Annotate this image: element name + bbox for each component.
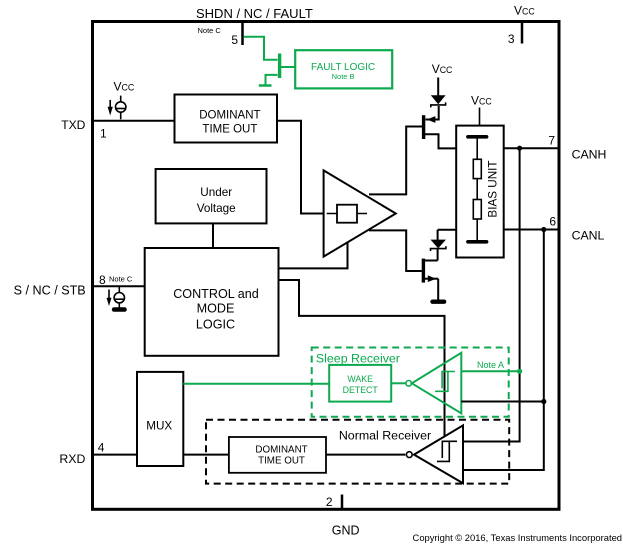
wire UV to control [212, 223, 214, 248]
block BIAS UNIT [456, 126, 504, 258]
node CANH junction [517, 146, 522, 151]
svg-text:3: 3 [508, 32, 515, 46]
wire RXD pin 4 [93, 454, 138, 456]
svg-text:4: 4 [98, 441, 105, 455]
svg-text:TIME OUT: TIME OUT [202, 124, 257, 136]
svg-text:5: 5 [231, 33, 238, 47]
svg-text:DOMINANT: DOMINANT [255, 445, 307, 456]
node CANL junction [541, 227, 546, 232]
normal receiver dashed box [206, 420, 509, 484]
pin 3 tick [521, 23, 524, 44]
svg-text:TIME OUT: TIME OUT [258, 456, 305, 467]
bias top plate [468, 135, 487, 139]
svg-text:TXD: TXD [61, 118, 85, 132]
svg-text:Note A: Note A [477, 360, 504, 370]
svg-text:GND: GND [332, 524, 360, 538]
wire driver to low-side gate [369, 230, 422, 271]
block CONTROL and MODE LOGIC [145, 248, 279, 356]
block DOMINANT TIME OUT (driver) [175, 95, 278, 143]
block DOMINANT TIME OUT (receiver) [229, 437, 326, 473]
wire MUX to normal DTO [183, 454, 229, 456]
svg-text:6: 6 [549, 215, 556, 229]
comparator U3 (sleep receiver, green) [406, 381, 412, 387]
sleep receiver dashed box (green) [312, 348, 509, 417]
svg-text:Note C: Note C [198, 26, 222, 35]
wire CANL (right) [504, 229, 558, 231]
svg-text:VCC: VCC [514, 4, 535, 18]
comparator U2 (normal receiver) [406, 452, 412, 458]
wire pin 8 [93, 285, 145, 287]
wire pin5 to fault transistor (green) [244, 37, 278, 60]
svg-text:MODE: MODE [197, 302, 235, 316]
outer chip border [93, 22, 560, 510]
svg-text:VCC: VCC [114, 79, 135, 93]
ground (green) [259, 84, 272, 87]
svg-text:1: 1 [100, 127, 107, 141]
wire normal DTO to comparator [326, 454, 405, 456]
svg-text:MUX: MUX [146, 419, 172, 432]
wire Q1 source to CANH [424, 134, 456, 148]
svg-text:2: 2 [326, 495, 333, 509]
svg-text:Under: Under [200, 186, 232, 199]
wire TXD pin1 [93, 120, 175, 122]
svg-text:CANL: CANL [572, 229, 605, 243]
svg-text:WAKE: WAKE [347, 374, 373, 384]
svg-text:LOGIC: LOGIC [196, 317, 235, 331]
Vcc stub (bias) [479, 108, 481, 126]
svg-text:Note C: Note C [109, 275, 133, 284]
svg-text:S / NC / STB: S / NC / STB [14, 284, 86, 298]
wire driver to high-side gate [369, 127, 422, 195]
driver slope-control line [327, 213, 367, 215]
svg-text:Copyright © 2016, Texas Instru: Copyright © 2016, Texas Instruments Inco… [413, 532, 622, 543]
node CANL sense junction [541, 399, 546, 404]
transistor Q2 (low side) [424, 260, 438, 262]
svg-text:BIAS UNIT: BIAS UNIT [487, 160, 500, 217]
svg-text:Note B: Note B [332, 72, 355, 81]
node green junction [517, 369, 522, 374]
transistor Q3 channel bar (green) [278, 54, 281, 79]
ground (Q2) [430, 300, 446, 304]
wire CANH [504, 147, 558, 149]
diode D2 [437, 230, 439, 240]
wire MUX to wake detect (green) [183, 383, 329, 385]
svg-text:DETECT: DETECT [343, 385, 379, 395]
svg-text:VCC: VCC [471, 94, 492, 108]
wire sleep comparator input low [461, 401, 544, 403]
svg-text:7: 7 [548, 133, 555, 147]
block MUX [137, 372, 183, 466]
wire control to normal receiver [279, 280, 445, 436]
svg-text:CANH: CANH [572, 148, 607, 162]
Q1 drain lead with arrow [426, 119, 439, 121]
svg-text:RXD: RXD [59, 452, 85, 466]
resistor R1 [473, 159, 481, 178]
wire CANH sense [463, 148, 520, 441]
wire CANL (left) [438, 229, 457, 231]
svg-text:8: 8 [99, 273, 106, 287]
block WAKE DETECT [329, 365, 391, 402]
svg-text:Voltage: Voltage [197, 202, 236, 215]
transistor Q1 (high side) channel bar [422, 115, 425, 139]
wire CANL sense [463, 230, 544, 471]
wire Q3 gate to fault logic (green) [281, 66, 295, 68]
svg-text:DOMINANT: DOMINANT [199, 110, 260, 122]
driver slope-control box [337, 205, 357, 223]
bias bottom plate [468, 240, 487, 244]
wire driver enable from control logic [279, 242, 348, 269]
block FAULT LOGIC [295, 50, 392, 88]
resistor R2 [473, 200, 481, 220]
pin 2 tick [341, 495, 344, 509]
svg-text:Normal Receiver: Normal Receiver [339, 428, 431, 442]
svg-text:SHDN / NC / FAULT: SHDN / NC / FAULT [196, 6, 313, 21]
svg-text:VCC: VCC [432, 62, 453, 76]
svg-text:CONTROL and: CONTROL and [173, 287, 259, 301]
wire DTO to driver input [277, 121, 324, 214]
current source I2 at pin 8 [118, 286, 120, 292]
wire Q3 source (green) [266, 75, 278, 85]
diode D1 [431, 102, 446, 107]
wire wake detect to comparator (green) [391, 382, 405, 384]
wire sleep comparator input high (green) [461, 370, 519, 372]
pin 5 tick [241, 23, 244, 45]
svg-text:Sleep Receiver: Sleep Receiver [316, 352, 400, 366]
op-amp driver [324, 170, 396, 256]
block Under Voltage [156, 169, 267, 223]
